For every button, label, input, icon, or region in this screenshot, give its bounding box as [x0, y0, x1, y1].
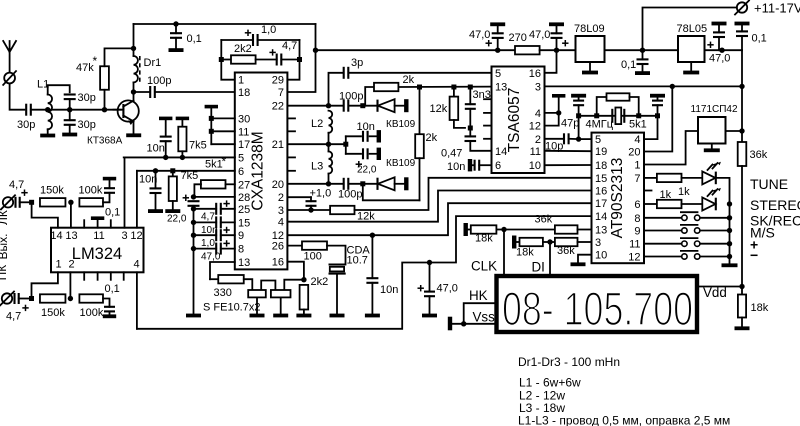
resistor 7k5 pin5 — [181, 120, 183, 126]
node L2-L3 — [326, 142, 331, 147]
svg-text:2: 2 — [278, 192, 284, 204]
svg-text:100k: 100k — [79, 185, 103, 197]
wire 30p to base row — [31, 109, 121, 111]
display module frame — [497, 276, 698, 332]
ground 47,0 ref — [422, 314, 437, 318]
bar 18k CLK — [464, 223, 468, 236]
wire gnd ref to AT90 pin14 — [137, 216, 592, 329]
svg-text:20: 20 — [272, 179, 284, 191]
wire LED1 to bus — [716, 178, 730, 204]
capacitor 4,7 PK — [13, 293, 15, 304]
node 5k1 left — [594, 113, 599, 118]
svg-text:7: 7 — [278, 87, 284, 99]
wire 47k bottom — [104, 90, 106, 110]
svg-text:47k: 47k — [76, 62, 94, 74]
svg-text:4: 4 — [133, 259, 139, 271]
node 0.1 top cap — [173, 21, 178, 26]
svg-text:47,0: 47,0 — [529, 29, 550, 41]
capacitor 10n varicap — [346, 135, 361, 137]
wire loop right node — [287, 40, 299, 80]
switch S8 wires — [644, 217, 682, 219]
svg-text:1,0: 1,0 — [201, 238, 215, 249]
svg-text:78L09: 78L09 — [574, 23, 605, 35]
node CLK — [501, 227, 506, 232]
svg-text:4: 4 — [634, 134, 640, 146]
capacitor 0,1 78L09 — [642, 50, 644, 59]
node 3n3 top — [468, 85, 473, 90]
node 47,0 ref — [427, 260, 432, 265]
ground left rail — [186, 314, 201, 318]
wire CXA pin16 to 2k2 — [287, 262, 304, 280]
wire bus x742 upper — [741, 50, 743, 142]
svg-text:21: 21 — [272, 139, 284, 151]
resistor 2k horizontal — [365, 87, 374, 106]
svg-text:100p: 100p — [147, 75, 171, 87]
capacitor 10n IF — [371, 235, 373, 278]
svg-text:4МГц: 4МГц — [586, 119, 614, 131]
node 2k vert top — [417, 85, 422, 90]
node 7k5 pin5 — [180, 155, 185, 160]
wire crystal row — [579, 115, 658, 117]
svg-text:10n: 10n — [357, 121, 375, 133]
svg-text:L2: L2 — [311, 118, 323, 130]
svg-text:36k: 36k — [557, 245, 575, 257]
capacitor 0,1 decoupling top-left — [175, 24, 177, 33]
node 3n3-0,47 — [468, 126, 473, 131]
resonator CDA10.7 — [329, 263, 346, 265]
wire 1171 out to bus — [726, 130, 743, 132]
wire LM324 pin3 to CXA pin5 — [125, 157, 235, 227]
node pins 4-12 — [556, 110, 561, 115]
crystal 4MHz — [611, 109, 613, 123]
svg-text:0,47: 0,47 — [441, 148, 462, 160]
ground 7k5 pin6 — [165, 209, 180, 213]
svg-text:CXA1238M: CXA1238M — [250, 131, 267, 210]
wire CXA pin21 row — [287, 143, 345, 145]
node varicap upper — [360, 103, 365, 108]
svg-text:28: 28 — [238, 192, 250, 204]
wire TSA pin16 riser — [545, 50, 557, 73]
node LED2 bus — [727, 201, 732, 206]
node crystal left — [576, 113, 581, 118]
svg-text:5k1: 5k1 — [205, 159, 223, 171]
svg-text:330: 330 — [214, 287, 232, 299]
svg-text:2k: 2k — [403, 74, 415, 86]
svg-text:*: * — [93, 54, 98, 68]
capacitor 0,47 — [469, 128, 471, 136]
svg-text:5k1: 5k1 — [629, 119, 647, 131]
svg-text:13: 13 — [238, 257, 250, 269]
wire 100p to CXA pin18 — [156, 91, 235, 93]
wire CXA pin13 to 330 — [210, 262, 235, 279]
bar AC-ground pins 30-11-17 — [205, 105, 218, 109]
svg-text:Dr1-Dr3 - 100 mHn: Dr1-Dr3 - 100 mHn — [518, 355, 620, 369]
switch S8 contacts — [682, 215, 687, 220]
ground under L1 — [40, 134, 55, 138]
switch S9 contacts — [682, 228, 687, 233]
resistor 12k AFC — [330, 206, 354, 214]
node 47,0 rail 1 — [495, 48, 500, 53]
ground SFE2 — [273, 314, 288, 318]
wire antenna mast — [9, 52, 11, 73]
svg-text:36k: 36k — [535, 214, 553, 226]
wire crystal node to AT90 pin5 — [578, 116, 580, 139]
svg-text:5: 5 — [238, 152, 244, 164]
capacitor 10n pin5 — [165, 120, 167, 136]
svg-text:1k: 1k — [678, 186, 690, 198]
resistor 2k2 loop — [221, 59, 231, 61]
switch S11 contacts — [682, 241, 687, 246]
svg-text:TUNE: TUNE — [750, 176, 788, 192]
ground 78L09 — [589, 62, 591, 71]
capacitor 47,0 ref — [429, 263, 431, 292]
wire LM324 pin4 bus — [136, 272, 138, 329]
svg-text:18: 18 — [595, 160, 607, 172]
resistor 12k vertical — [453, 87, 455, 97]
svg-text:15: 15 — [595, 173, 607, 185]
svg-text:100p: 100p — [338, 189, 362, 201]
wire riser to top rail — [133, 24, 135, 48]
svg-text:5: 5 — [495, 68, 501, 80]
svg-text:47,0: 47,0 — [437, 283, 458, 295]
capacitor 47p crystal right — [650, 94, 665, 98]
svg-text:8: 8 — [238, 244, 244, 256]
AT90 stub right 16row — [644, 190, 652, 192]
svg-text:11: 11 — [530, 146, 541, 158]
ground 18k Vdd — [735, 326, 750, 330]
svg-text:15: 15 — [238, 217, 250, 229]
wire CXA pin6 row — [137, 170, 235, 172]
LM324 pin stubs bottom — [83, 272, 85, 280]
svg-text:10.7: 10.7 — [347, 255, 368, 267]
ground 10n pin6 — [148, 209, 163, 213]
node switch 9 — [727, 228, 732, 233]
resistor 270 — [498, 49, 515, 51]
wire CXA pin28 row — [194, 196, 235, 198]
resistor 150k LK — [40, 198, 65, 206]
svg-text:0,1: 0,1 — [752, 33, 767, 45]
wire pins 4-12 to bar — [558, 97, 560, 113]
node loop left — [219, 57, 224, 62]
svg-text:L3: L3 — [311, 161, 323, 173]
regulator 78L05 — [678, 36, 705, 62]
svg-text:14: 14 — [595, 211, 607, 223]
inductor L3 — [328, 144, 330, 151]
bar 7k5 top — [176, 117, 189, 121]
capacitor 1,0 pin9 — [194, 234, 217, 236]
wire CXA pin3 row — [287, 209, 330, 211]
svg-text:9: 9 — [634, 226, 640, 238]
svg-text:+1,0: +1,0 — [310, 188, 332, 200]
capacitor 22,0 rail — [188, 200, 200, 202]
capacitor 0,1 LK — [103, 193, 110, 203]
svg-text:5: 5 — [595, 134, 601, 146]
LED HL1 — [682, 177, 703, 179]
node collector junction — [131, 89, 136, 94]
capacitor 1,0 pin2-pin3 — [310, 197, 312, 201]
wire 150k junction to pin13 — [70, 202, 72, 227]
svg-text:Dr1: Dr1 — [144, 57, 162, 69]
wire LED bus — [729, 204, 731, 257]
node 47k-base junction — [102, 107, 107, 112]
wire CLK to display — [503, 230, 505, 277]
bar LM324 pin11 — [91, 216, 104, 220]
svg-text:16: 16 — [272, 257, 284, 269]
svg-text:30p: 30p — [78, 92, 96, 104]
svg-text:150k: 150k — [40, 185, 64, 197]
switch S12 wires — [644, 256, 682, 258]
capacitor 0,1 PK — [103, 299, 110, 307]
capacitor 4,7 loop — [256, 59, 277, 61]
node Vdd — [739, 284, 744, 289]
wire TSA pin3 to bus — [545, 85, 743, 87]
wire rail y50 right segment — [557, 49, 576, 51]
capacitor 47p crystal left — [571, 94, 586, 98]
switch S11 wires — [644, 243, 682, 245]
wire pin2 — [69, 272, 71, 298]
svg-text:47,0: 47,0 — [709, 53, 730, 65]
resistor 36k DI — [550, 241, 555, 243]
ground 10n IF — [365, 314, 380, 318]
node Vss — [461, 321, 466, 326]
svg-text:8: 8 — [634, 213, 640, 225]
wire CXA pin7 Vcc riser — [287, 24, 315, 92]
resistor 100 pin26 — [287, 245, 302, 247]
svg-text:4: 4 — [278, 217, 284, 229]
svg-text:7k5: 7k5 — [181, 170, 199, 182]
svg-text:Vdd: Vdd — [703, 285, 727, 300]
svg-text:100k: 100k — [80, 307, 104, 319]
svg-text:16: 16 — [529, 68, 541, 80]
svg-text:2: 2 — [535, 134, 541, 146]
ground under 0,1 — [169, 48, 184, 52]
svg-text:1171СП42: 1171СП42 — [691, 104, 738, 115]
resistor 100k LK — [79, 198, 103, 206]
svg-text:22,0: 22,0 — [357, 165, 377, 176]
node pin30 tie — [209, 116, 214, 121]
inductor L2 — [329, 111, 333, 133]
resistor 150k PK — [40, 294, 65, 302]
node bus corner y86 — [739, 84, 744, 89]
node 10n pin5 — [163, 155, 168, 160]
node 47p bus — [670, 84, 675, 89]
svg-text:36k: 36k — [750, 149, 768, 161]
filter SFE2 10.7 — [271, 290, 291, 297]
capacitor 100p collector coupling — [134, 91, 150, 93]
svg-text:2k2: 2k2 — [311, 276, 329, 288]
node 150k-100k LK — [68, 200, 73, 205]
svg-text:STEREO: STEREO — [750, 197, 800, 213]
node rail 47,0 — [191, 246, 196, 251]
ground under 30p lower — [69, 125, 71, 133]
svg-text:ПК: ПК — [0, 265, 9, 281]
svg-text:LM324: LM324 — [72, 245, 122, 263]
svg-text:TSA6057: TSA6057 — [506, 88, 523, 153]
wire loop left node — [221, 40, 235, 80]
IC U2 TSA6057 — [492, 67, 545, 174]
resistor 2k2 IF — [300, 285, 309, 310]
svg-text:17: 17 — [238, 139, 250, 151]
capacitor 47,0 pin8 — [194, 248, 217, 250]
transistor VT1 KT368A — [118, 100, 139, 121]
svg-text:4,7: 4,7 — [282, 40, 297, 52]
resistor 7k5 pin6 — [172, 171, 174, 177]
bar 10n top — [159, 117, 172, 121]
capacitor 100p lower varicap — [343, 178, 345, 190]
svg-text:1: 1 — [238, 75, 244, 87]
resistor 18k Vdd — [741, 287, 743, 295]
svg-text:22,0: 22,0 — [167, 214, 187, 225]
svg-text:1k: 1k — [660, 189, 672, 201]
svg-text:9: 9 — [238, 230, 244, 242]
svg-text:Vss: Vss — [473, 310, 496, 325]
IC U5 LM324 — [51, 228, 144, 273]
ground 2k2 — [296, 314, 311, 318]
svg-text:11: 11 — [93, 230, 104, 242]
svg-text:14: 14 — [495, 146, 507, 158]
ground AT90 pin10 — [578, 255, 592, 263]
svg-text:18k: 18k — [475, 233, 493, 245]
wire L2 to pin21 node — [328, 133, 330, 144]
node 5k1 right — [636, 113, 641, 118]
svg-text:100: 100 — [304, 251, 322, 263]
wire AT90 pin1 to 1171 — [644, 131, 698, 165]
resistor 100k PK — [79, 294, 103, 302]
svg-text:DI: DI — [532, 260, 545, 275]
svg-text:AT90S2313: AT90S2313 — [609, 158, 626, 239]
svg-text:11: 11 — [629, 239, 640, 251]
capacitor 3n3 — [469, 87, 471, 104]
resistor 36k bus — [738, 142, 747, 166]
svg-text:+11-17V: +11-17V — [754, 1, 800, 16]
filter SFE1 10.7 — [248, 290, 266, 297]
svg-text:12k: 12k — [430, 103, 448, 115]
svg-text:30p: 30p — [78, 119, 96, 131]
node 10n IF — [370, 233, 375, 238]
svg-text:3: 3 — [278, 205, 284, 217]
svg-text:КВ109: КВ109 — [386, 158, 416, 169]
svg-text:19: 19 — [595, 146, 607, 158]
svg-text:18k: 18k — [516, 247, 534, 259]
svg-text:150k: 150k — [41, 307, 65, 319]
svg-text:L1 - 6w+6w: L1 - 6w+6w — [519, 376, 581, 390]
svg-text:16: 16 — [595, 186, 607, 198]
svg-text:11: 11 — [238, 126, 249, 138]
varicap diode KB109 upper — [363, 105, 378, 107]
capacitor 30p upper — [64, 93, 76, 95]
svg-text:47p: 47p — [561, 118, 579, 130]
wire 330 to SFE1 — [244, 279, 253, 290]
antenna terminal — [4, 73, 15, 84]
capacitor 30p lower — [69, 110, 71, 121]
wire pins 30 11 17 tie — [210, 108, 212, 144]
wire TSA pin10 to AT90 pin18 — [545, 164, 592, 166]
wire 100 to CDA — [327, 246, 346, 265]
wire SFE1 out to SFE2 in — [261, 281, 275, 291]
IC U1 CXA1238M — [235, 73, 288, 270]
ground 1171 — [711, 144, 713, 149]
svg-text:6: 6 — [634, 199, 640, 211]
svg-text:3: 3 — [595, 237, 601, 249]
wire LM324 pin12 to CXA pin6 — [136, 171, 138, 228]
capacitor 22,0 varicap — [346, 153, 361, 155]
svg-text:78L05: 78L05 — [677, 23, 708, 35]
wire CDA to ground — [336, 274, 338, 314]
node crystal right — [655, 113, 660, 118]
svg-text:CLK: CLK — [471, 259, 497, 274]
resistor 36k CLK — [504, 229, 555, 231]
wire rail y50 left segment — [316, 49, 498, 51]
node DI — [547, 239, 552, 244]
svg-text:−: − — [750, 247, 758, 263]
wire SFE2 out to 2k2 — [284, 280, 304, 290]
svg-text:12: 12 — [628, 252, 640, 264]
node 10n pin6 — [153, 168, 158, 173]
wire 3p branch — [329, 73, 344, 106]
wire 10n-22,0 tie — [345, 136, 347, 154]
wire 47k top to rail — [105, 48, 134, 66]
node 47,0 rail 2 — [554, 48, 559, 53]
capacitor 10p — [545, 138, 564, 140]
node 150k-100k PK — [68, 296, 73, 301]
node rail 1,0 — [191, 233, 196, 238]
capacitor 1,0 loop top — [221, 39, 253, 41]
svg-text:17: 17 — [595, 198, 607, 210]
svg-text:29: 29 — [272, 75, 284, 87]
Dr1 core dashed line — [139, 56, 141, 82]
svg-text:0,1: 0,1 — [105, 283, 120, 295]
node switch 12 — [727, 254, 732, 259]
node 1,0 pin3 — [308, 207, 313, 212]
node varicap lower — [360, 181, 365, 186]
svg-text:10n: 10n — [447, 161, 465, 173]
svg-text:10n: 10n — [139, 174, 157, 186]
svg-text:6: 6 — [238, 166, 244, 178]
svg-text:0,1: 0,1 — [105, 207, 120, 219]
wire HK — [464, 303, 497, 324]
node 12k vert top — [451, 85, 456, 90]
wire bus x742 lower — [741, 166, 743, 287]
node PK — [29, 296, 34, 301]
terminal LK input — [3, 197, 13, 207]
wire CXA pin5 row — [124, 156, 235, 158]
svg-text:47,0: 47,0 — [469, 29, 490, 41]
ground 78L05 — [690, 62, 692, 71]
svg-text:20: 20 — [628, 147, 640, 159]
wire 12k to AT90 pin15 — [355, 178, 592, 210]
svg-text:100p: 100p — [339, 91, 363, 103]
node L2 top — [326, 103, 331, 108]
svg-text:12k: 12k — [357, 211, 375, 223]
resistor 5k1 crystal — [597, 97, 607, 116]
svg-text:47,0: 47,0 — [201, 251, 221, 262]
bar 18k DI — [512, 236, 516, 249]
node rail 10n — [191, 220, 196, 225]
svg-text:4,7: 4,7 — [6, 311, 21, 323]
node L1 tap — [45, 107, 50, 112]
svg-text:25: 25 — [238, 204, 250, 216]
ground under emitter — [126, 133, 141, 137]
regulator 78L09 — [576, 36, 605, 62]
wire 2k row to TSA pin13 — [398, 86, 491, 88]
inductor L1 — [48, 95, 52, 130]
svg-text:26: 26 — [272, 241, 284, 253]
svg-text:22: 22 — [272, 101, 284, 113]
wire collector — [133, 92, 135, 101]
node 10p out — [576, 136, 581, 141]
capacitor 30p series — [25, 104, 27, 116]
wire 3p to TSA pin5 — [349, 72, 492, 74]
